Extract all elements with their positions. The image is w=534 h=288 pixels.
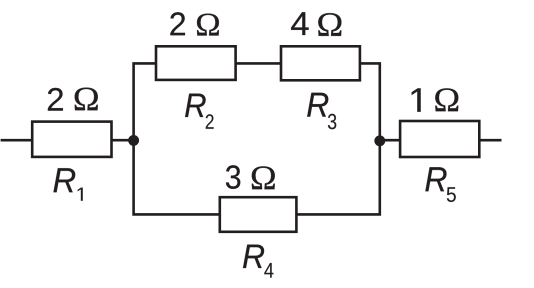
wire R2 to R3 bbox=[236, 62, 281, 65]
label R2 bbox=[185, 94, 213, 129]
label R4 bbox=[243, 245, 273, 278]
resistor R2 body bbox=[156, 46, 236, 80]
node A junction dot bbox=[128, 135, 139, 146]
label R1 bbox=[54, 168, 83, 200]
value 2 Ohm above R1 bbox=[48, 88, 98, 111]
resistor R3 body bbox=[281, 46, 360, 80]
wire node B to R5 bbox=[380, 139, 400, 142]
value 1 Ohm above R5 bbox=[412, 88, 459, 111]
wire right branch: from R3 across, down through node B to R4 bbox=[296, 63, 379, 214]
wire right output lead bbox=[479, 139, 501, 142]
value 3 Ohm above R4 bbox=[226, 165, 275, 189]
node B junction dot bbox=[374, 135, 385, 146]
wire left branch: up from node A, across to R2, down to R4 bbox=[134, 63, 220, 214]
wire left input lead bbox=[1, 139, 33, 142]
label R3 bbox=[307, 93, 336, 130]
value 4 Ohm above R3 bbox=[291, 12, 341, 36]
wire R1 to node A bbox=[112, 139, 135, 142]
resistor R4 body bbox=[220, 197, 297, 232]
value 2 Ohm above R2 bbox=[170, 12, 219, 35]
resistor R5 body bbox=[400, 121, 479, 157]
label R5 bbox=[425, 167, 455, 202]
resistor R1 body bbox=[32, 122, 111, 157]
